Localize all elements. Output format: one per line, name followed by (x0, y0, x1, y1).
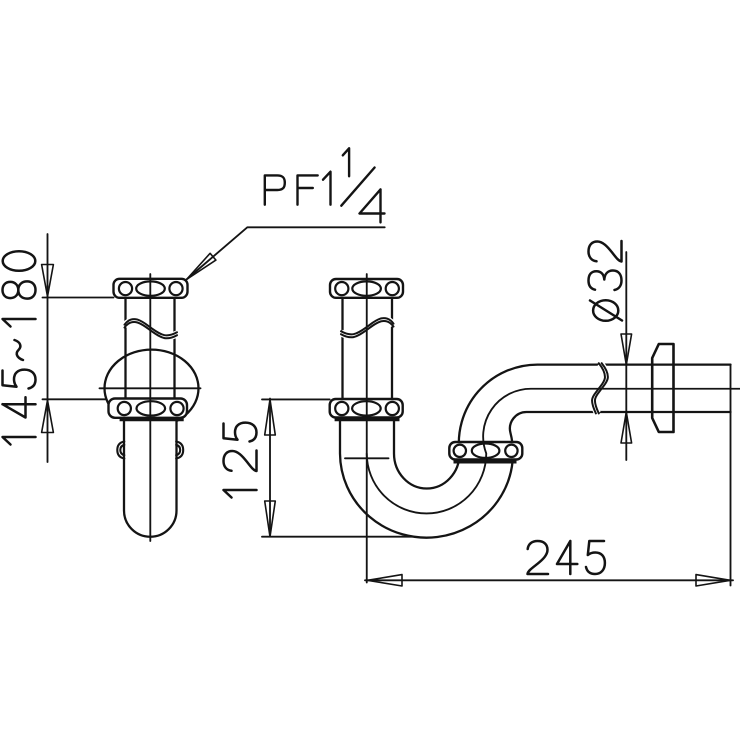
tailpiece walls + round bottom (124, 418, 177, 537)
pipe break gap (white) (594, 363, 607, 413)
pipe break squiggle left (592, 363, 605, 413)
ext line bottom (43, 398, 106, 400)
flange mid-top (330, 279, 403, 298)
break squiggle upper (125, 319, 178, 335)
escutcheon wall flange (652, 344, 673, 432)
right tab inner (176, 445, 180, 455)
flange left-lower (109, 399, 188, 418)
left tab inner (120, 445, 124, 455)
ext line top (43, 297, 114, 299)
trap tube centerline through U and elbow and outlet (367, 389, 740, 514)
ext line bottom (262, 536, 412, 538)
break gap (white) (125, 321, 178, 337)
arrow left (368, 575, 402, 586)
dim line (47, 234, 49, 462)
sup 1 (343, 148, 349, 176)
right end line (730, 365, 732, 586)
text Ø32 (589, 241, 623, 321)
text 245 (528, 541, 605, 574)
left tab outer (117, 442, 124, 459)
trap wall A: left outer wall, U outer, elbow inner, pipe bottom (340, 412, 731, 538)
flange left-top (114, 279, 188, 298)
flange mid-lower thick bar (335, 417, 400, 421)
text PF1 (265, 172, 331, 205)
break gap (white) (341, 320, 394, 336)
trap wall B: right inner wall, U inner, elbow outer, pipe top (394, 365, 731, 489)
ball horizontal centerline (100, 387, 201, 389)
arrow up (42, 400, 54, 432)
arrow down (42, 265, 54, 297)
arrow down (265, 501, 276, 537)
dim line (269, 399, 271, 537)
flange mid-lower (330, 399, 403, 418)
trap ball body (105, 350, 199, 427)
pipe break squiggle right (595, 363, 608, 413)
flange riser thick bar (454, 459, 517, 463)
break squiggle lower (341, 321, 394, 337)
flange riser (449, 442, 522, 460)
trap vertical centerline extended to dim (366, 274, 368, 583)
arrow up (265, 399, 276, 435)
leader arrow (187, 253, 216, 279)
fraction slash (341, 168, 374, 206)
flange left-lower thick bar (120, 417, 184, 421)
arrow up (621, 412, 632, 443)
inlet tube walls (343, 298, 393, 400)
tangent line in tube (345, 457, 389, 459)
dim line (625, 252, 627, 460)
break squiggle upper (341, 318, 394, 334)
sub 4 (360, 189, 385, 222)
inlet tube walls (126, 298, 175, 399)
ext line top (262, 398, 330, 400)
break squiggle lower (125, 322, 178, 338)
arrow down (621, 334, 632, 365)
arrow right (696, 575, 730, 586)
text 145~180 (3, 251, 36, 444)
dim line (365, 579, 733, 581)
leader line (187, 227, 385, 279)
right tab outer (176, 442, 183, 459)
left centerline (149, 274, 151, 541)
text 125 (224, 423, 257, 498)
